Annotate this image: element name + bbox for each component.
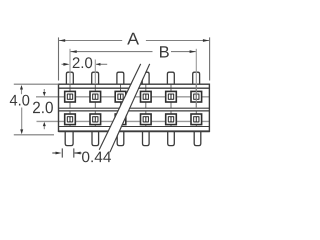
top pin 1 <box>66 72 73 84</box>
dimension B line left segment <box>71 51 153 53</box>
dimension B extension left (pin1 centre) <box>69 49 71 84</box>
contact row1 col1 <box>65 91 76 102</box>
dimension A extension line right <box>209 37 211 80</box>
dimension 2.0 pitch arrow right (points left) <box>96 63 100 66</box>
contact squares row 2 <box>65 114 202 125</box>
B extension continues through col6 row1 contact <box>195 84 197 108</box>
contact row1 col3 <box>115 91 126 102</box>
dimension 2.0 pitch leader right <box>96 63 107 65</box>
contact row1 col2 <box>90 91 101 102</box>
dimension A label <box>127 33 139 45</box>
body seam line upper <box>59 107 210 109</box>
dimension A line left segment <box>59 40 122 42</box>
dimension 2.0 pitch extension right (pin2 centre) <box>94 60 96 85</box>
dimension 4.0 extension bottom (gray) <box>14 134 54 136</box>
break line 1 <box>99 64 141 150</box>
contact row2 col4 <box>141 114 152 125</box>
row 2 centerline (gray) <box>37 120 210 122</box>
dimension B arrow left <box>71 50 77 53</box>
dimension 0.44 arrow left (points right) <box>56 152 62 155</box>
dimension 0.44 label <box>82 152 111 163</box>
body seam line lower <box>59 110 210 112</box>
dimension 0.44 leader left <box>52 152 56 154</box>
dimension 2.0 row spacing arrow top (points down) <box>43 89 45 92</box>
bottom pin 5 <box>168 131 175 145</box>
bottom pin 3 <box>117 131 124 145</box>
dimension 2.0 pitch leader left <box>62 63 67 65</box>
bottom pin 6 <box>194 131 201 145</box>
dimension A arrow right <box>203 39 209 42</box>
dimension 4.0 arrow down <box>20 129 23 134</box>
dimension 2.0 pitch label <box>73 57 93 68</box>
contact row2 col3 <box>115 114 126 125</box>
top pin 3 <box>117 72 124 84</box>
contact row2 col2 <box>90 114 101 125</box>
dimension 4.0 line bottom part <box>21 108 23 130</box>
contact row2 col6 <box>191 114 202 125</box>
dimension 2.0 row spacing arrow bottom (points up) <box>43 126 45 130</box>
dimension B extension right (pin6 centre) <box>195 49 197 84</box>
body top lip line <box>59 87 210 89</box>
break line 2 <box>110 64 150 152</box>
top pin 5 <box>167 72 174 84</box>
contact row1 col5 <box>166 91 177 102</box>
bottom pin 2 <box>92 131 99 145</box>
dimension 4.0 arrow up <box>20 85 23 90</box>
dimension A extension line left <box>58 37 60 80</box>
bottom pin 1 <box>65 131 73 145</box>
dimension 4.0 label <box>10 95 30 106</box>
top pin 6 <box>193 72 200 84</box>
row 1 centerline (gray) <box>36 96 209 98</box>
dimension 2.0 row spacing label <box>33 102 53 114</box>
dimension B arrow right <box>190 50 196 53</box>
body bottom edge (thick) <box>59 130 210 132</box>
dimension 2.0 pitch arrow left (points right) <box>63 63 69 66</box>
contact row1 col6 <box>191 91 202 102</box>
dimension A arrow left <box>59 39 65 42</box>
break band (white) <box>99 64 150 152</box>
bottom pin 4 <box>143 131 150 145</box>
contact row2 col5 <box>166 114 177 125</box>
dimension 4.0 line top part <box>21 89 23 94</box>
dimension 0.44 extension right <box>73 148 75 157</box>
dimension 0.44 extension left <box>61 148 63 157</box>
top pin 2 <box>92 72 99 84</box>
dimension 0.44 leader right <box>74 152 81 154</box>
dimension 4.0 extension top <box>14 83 59 85</box>
column centerline ticks <box>70 84 196 126</box>
dimension B label <box>160 46 169 57</box>
top pin 4 <box>142 72 149 84</box>
contact row1 col4 <box>141 91 152 102</box>
contact squares row 1 <box>65 91 202 102</box>
dimension 0.44 arrow right (points left) <box>74 152 80 155</box>
body bottom lip line <box>59 126 210 128</box>
connector body outline <box>59 84 210 131</box>
dimension A line right segment <box>146 40 209 42</box>
contact row2 col1 <box>65 114 76 125</box>
dimension B line right segment <box>171 51 196 53</box>
